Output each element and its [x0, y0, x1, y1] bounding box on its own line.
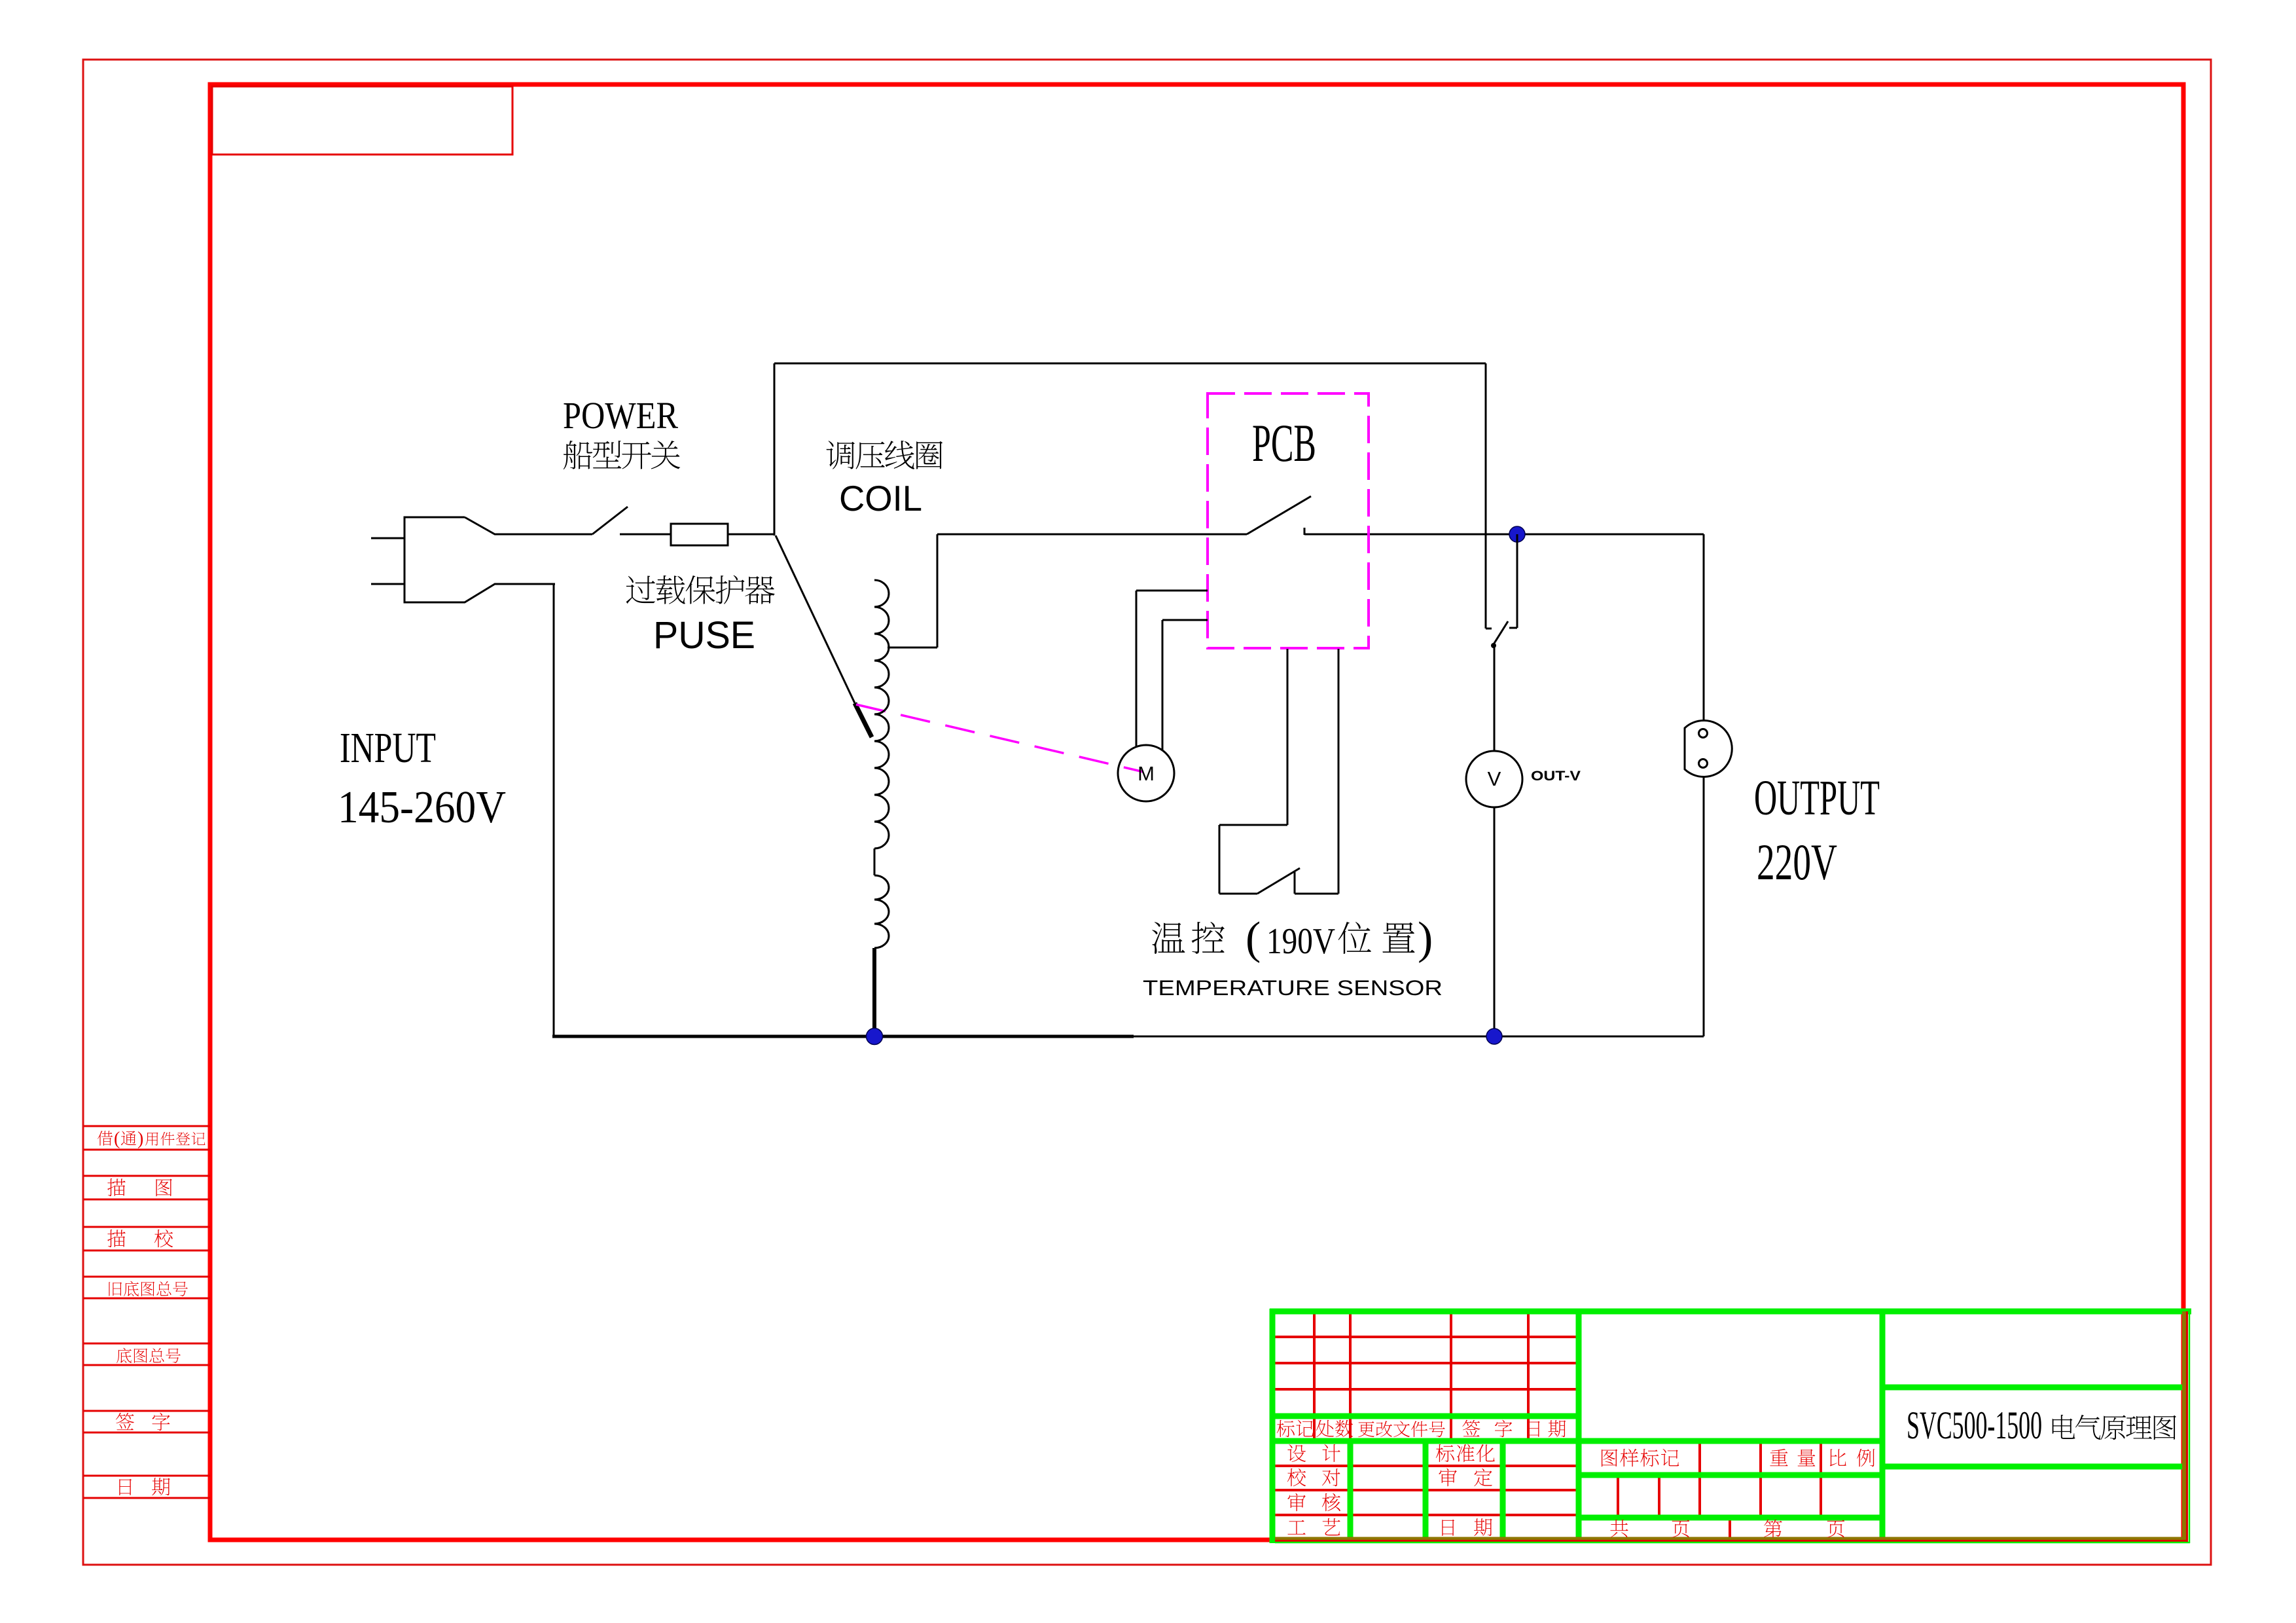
wire fuse to coil node — [728, 534, 774, 536]
motor M servo — [1118, 745, 1174, 801]
svg-text:OUT-V: OUT-V — [1531, 769, 1581, 784]
svg-text:V: V — [1488, 767, 1501, 790]
svg-text:(: ( — [1246, 913, 1261, 964]
wire top bus to relay branch — [774, 363, 1486, 365]
PCB module box — [1208, 393, 1369, 648]
voltmeter V OUT-V — [1466, 751, 1522, 807]
motor drive link (dashed) — [856, 704, 1143, 772]
node junction J1 (relay output) — [1509, 526, 1525, 542]
wire voltmeter to bottom bus — [1494, 807, 1496, 1038]
node junction J3 coil bottom — [867, 1029, 883, 1045]
wire switch to fuse — [620, 534, 671, 536]
wiper arm of autotransformer — [776, 536, 872, 737]
value label thermostat 190V — [1143, 913, 1443, 1000]
svg-text:(: ( — [114, 1129, 120, 1149]
switch S1 POWER — [592, 507, 628, 534]
svg-text:145-260V: 145-260V — [338, 782, 506, 833]
svg-text:220V: 220V — [1757, 833, 1837, 890]
wire input neutral drop — [553, 584, 555, 1036]
value label POWER rocker switch — [563, 394, 680, 469]
value label OUTPUT 220V — [1754, 771, 1880, 890]
wire coil bottom (thick) — [872, 948, 876, 1038]
svg-text:): ) — [137, 1129, 143, 1149]
svg-text:PCB: PCB — [1252, 413, 1316, 473]
svg-text:POWER: POWER — [563, 394, 678, 437]
node junction J4 voltmeter bottom — [1486, 1029, 1502, 1044]
wire PCB to motor (right) — [1162, 620, 1208, 750]
inductor L1 regulating coil — [874, 580, 889, 948]
svg-text:COIL: COIL — [839, 478, 922, 519]
wire output socket to bottom bus — [1703, 776, 1705, 1036]
wire node to voltmeter switch — [1509, 534, 1517, 628]
svg-text:PUSE: PUSE — [653, 614, 755, 657]
svg-text:INPUT: INPUT — [340, 724, 436, 772]
value label PUSE overload protector — [626, 575, 775, 657]
svg-text:TEMPERATURE SENSOR: TEMPERATURE SENSOR — [1143, 976, 1443, 1000]
svg-text:SVC500-1500: SVC500-1500 — [1907, 1404, 2042, 1447]
svg-text:): ) — [1418, 913, 1433, 964]
wire coil top riser — [774, 363, 776, 536]
svg-text:OUTPUT: OUTPUT — [1754, 771, 1880, 826]
fuse F1 overload protector — [671, 524, 728, 545]
svg-text:M: M — [1138, 762, 1155, 785]
wire coil tap to relay line — [888, 534, 1247, 647]
bottom bus (thick) — [552, 1035, 1134, 1038]
connector P1 input plug — [371, 517, 592, 602]
value label INPUT 145-260V — [338, 724, 506, 833]
switch S2 voltmeter select — [1491, 621, 1508, 751]
bottom bus (thin) — [1134, 1036, 1704, 1038]
svg-text:190V: 190V — [1266, 921, 1335, 962]
wire relay to output node — [1304, 534, 1704, 536]
relay contact K1 inside PCB — [1247, 496, 1311, 535]
value label COIL — [827, 441, 943, 519]
wire output drop — [1703, 534, 1705, 720]
thermostat switch (temperature sensor) — [1219, 649, 1338, 894]
wire PCB to motor (left) — [1136, 591, 1208, 747]
wire right riser from top bus — [1486, 363, 1492, 629]
connector J2 output socket — [1685, 721, 1732, 777]
